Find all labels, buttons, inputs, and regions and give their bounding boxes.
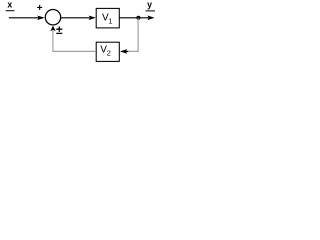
svg-text:y: y — [147, 0, 152, 10]
node junction dot — [136, 16, 140, 20]
svg-text:x: x — [7, 0, 12, 10]
block V2 — [96, 42, 119, 61]
svg-text:2: 2 — [107, 49, 111, 58]
wire input x to summing junction — [9, 17, 39, 19]
block V1 — [96, 8, 119, 28]
arrowhead into V2 (pointing left) — [120, 49, 127, 54]
wire V1 to output y — [119, 17, 149, 19]
wire feedback from node down and left to V2 (gray) — [127, 18, 138, 52]
arrowhead feedback into summing junction (pointing up) — [50, 26, 55, 32]
node y (output label, underlined) — [146, 0, 156, 11]
arrowhead output y — [147, 16, 154, 21]
summing junction circle — [45, 10, 60, 25]
arrowhead into summing junction — [37, 16, 45, 21]
wire stub at V2 input — [126, 50, 129, 52]
svg-text:+: + — [37, 3, 43, 14]
node x (input label, underlined) — [6, 0, 15, 11]
arrowhead into V1 — [89, 16, 96, 21]
wire V2 to summing junction (gray, left then up) — [53, 31, 96, 52]
svg-text:±: ± — [56, 23, 63, 37]
svg-text:1: 1 — [108, 16, 112, 25]
wire summing junction to V1 — [61, 17, 91, 19]
